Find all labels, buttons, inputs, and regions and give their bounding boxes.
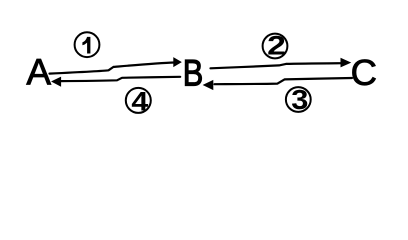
arrowhead of arrow 2 <box>341 59 350 67</box>
svg-text:C: C <box>351 52 377 93</box>
arrowhead of arrow 1 <box>174 58 181 66</box>
label circled 1 <box>75 32 100 57</box>
wire arrow 4 shaft (B to A) <box>60 77 181 81</box>
svg-text:B: B <box>183 53 203 94</box>
arrowhead of arrow 3 <box>204 81 213 90</box>
node B <box>183 53 203 94</box>
svg-text:A: A <box>26 52 51 93</box>
wire arrow 2 shaft (B to C) <box>211 63 343 68</box>
arrowhead of arrow 4 <box>52 77 60 86</box>
svg-text:4: 4 <box>131 87 148 117</box>
svg-text:2: 2 <box>267 32 286 61</box>
svg-text:3: 3 <box>291 85 308 115</box>
label circled 3 <box>286 87 311 112</box>
label circled 4 <box>126 88 151 113</box>
wire arrow 1 shaft (A to B) <box>50 63 175 74</box>
wire arrow 3 shaft (C to B) <box>215 78 353 84</box>
label circled 2 <box>263 34 288 59</box>
